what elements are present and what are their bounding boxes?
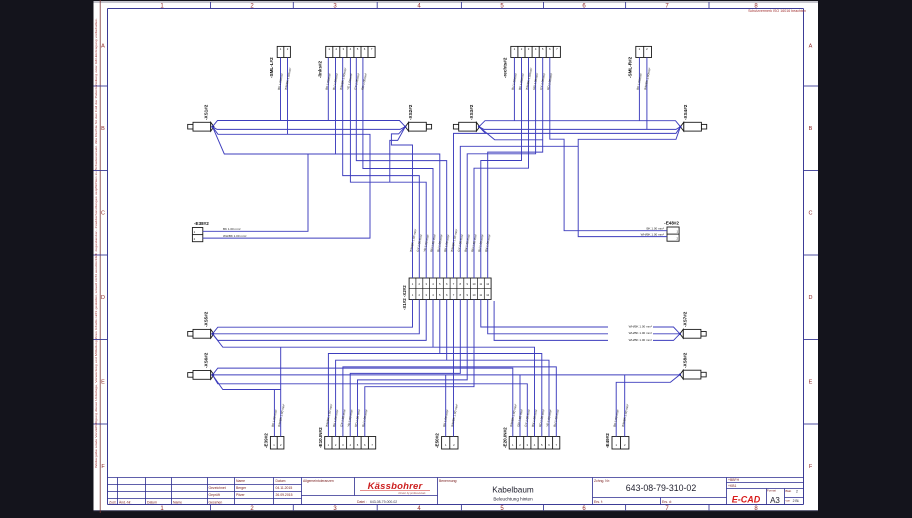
row letters right	[809, 44, 813, 471]
wire strip6 to links pin5	[356, 58, 446, 279]
svg-text:Weitergabe sowie Vervielfältig: Weitergabe sowie Vervielfältigung dieser…	[94, 18, 98, 468]
svg-text:-rechts#2: -rechts#2	[502, 57, 507, 78]
svg-text:E: E	[101, 380, 105, 386]
zone numbers top	[160, 3, 758, 9]
zchng nr area	[593, 497, 727, 499]
svg-text:-E20.IN#2: -E20.IN#2	[502, 427, 507, 448]
wire strip10 to rechts pin3	[474, 58, 529, 279]
wire strip11 to rechts pin2	[481, 58, 522, 279]
svg-text:E-CAD: E-CAD	[732, 495, 761, 505]
svg-text:Pitzer: Pitzer	[236, 493, 246, 497]
wire strip10 to E10 pin6	[365, 300, 474, 437]
svg-text:A: A	[809, 44, 813, 50]
wire XS1 fan4 to strip5 with E38 pin1 tap	[213, 127, 440, 278]
connector -links#2	[326, 46, 375, 57]
svg-text:E: E	[809, 380, 813, 386]
wire XS4 fan to E48 pin2	[578, 127, 680, 237]
svg-text:Ers. f:: Ers. f:	[594, 500, 603, 504]
svg-text:WH/BK 1.00 mm²: WH/BK 1.00 mm²	[629, 338, 652, 342]
wire XS6 fan1 to E20 pin1 with E50 pin1 tap	[213, 368, 513, 436]
wire XS6 fan4 to E39	[213, 375, 281, 390]
wire labels XS7 feeds	[608, 325, 653, 342]
wire XS8 to E49 pin1	[616, 375, 680, 437]
wire strip1 to XS2 tip	[391, 127, 412, 278]
wire SML-R pin1 drop	[638, 58, 640, 121]
row letters left	[101, 44, 105, 471]
wire SML-L pin2 drop	[287, 58, 289, 135]
drawing frame	[108, 9, 804, 505]
svg-text:C: C	[809, 211, 813, 217]
svg-text:Driven by professionals: Driven by professionals	[399, 491, 427, 495]
top ruler line	[94, 1, 819, 3]
terminal strip -X1#2 -X2#2	[409, 278, 491, 300]
svg-text:-E50#2: -E50#2	[435, 433, 440, 448]
wire E20 pin2 tap	[519, 375, 521, 437]
wire XS6 fan2 cross to XS8 tip	[213, 374, 680, 376]
wire labels SML-R pins	[636, 67, 652, 90]
wire labels E20.IN	[509, 404, 560, 428]
left revision table	[117, 478, 119, 505]
svg-text:-XS3#2: -XS3#2	[469, 104, 474, 120]
wire rechts pin6 to E48 pin1	[550, 58, 667, 231]
svg-text:-XS2#2: -XS2#2	[408, 104, 413, 120]
svg-text:Format: Format	[767, 489, 776, 493]
svg-text:Zust.: Zust.	[109, 500, 117, 504]
signature table	[234, 478, 236, 505]
wire labels links pins	[325, 67, 368, 90]
svg-text:A3: A3	[770, 496, 780, 505]
wire E10 pin3 to E20 pin7	[343, 367, 556, 437]
svg-text:BK 1.00 mm²: BK 1.00 mm²	[646, 227, 664, 231]
svg-text:Änd.-Nr.: Änd.-Nr.	[119, 500, 132, 504]
wire E10 pin1 to E20 pin5	[328, 354, 541, 437]
svg-text:WH/BK 1.00 mm²: WH/BK 1.00 mm²	[629, 331, 652, 335]
wire rechts pin5 to XS3 tip	[479, 58, 543, 140]
wire XS5 fan1 to strip1	[213, 300, 413, 334]
connector -rechts#2	[511, 46, 561, 57]
svg-text:D: D	[101, 295, 105, 301]
zone numbers bottom	[160, 506, 758, 512]
wire XS5 fan4 to E20 pin4	[213, 334, 535, 437]
svg-text:Name: Name	[236, 479, 245, 483]
svg-text:2 Bl.: 2 Bl.	[793, 499, 800, 503]
svg-text:Gezeichnet: Gezeichnet	[209, 486, 226, 490]
wire links pin2 drop to y154	[335, 58, 337, 155]
svg-text:04.11.2015: 04.11.2015	[276, 486, 293, 490]
svg-text:12: 12	[486, 282, 489, 286]
wire bus T1R XS3-XS4	[479, 121, 680, 127]
svg-text:-XS1#2: -XS1#2	[204, 104, 209, 120]
lamp -E10.IN#2	[325, 437, 376, 450]
svg-text:-E39#2: -E39#2	[264, 433, 269, 448]
svg-text:WH/BK 1.00 mm²: WH/BK 1.00 mm²	[629, 324, 652, 328]
svg-text:Gesehen: Gesehen	[209, 500, 223, 504]
bottom ruler line	[94, 510, 819, 512]
wire labels E10.IN	[325, 404, 369, 428]
wire strip5 drop	[439, 300, 441, 354]
wire bus T1 XS1-XS2	[213, 121, 406, 127]
svg-text:-E48#2: -E48#2	[664, 221, 679, 226]
svg-text:+BBFH: +BBFH	[728, 478, 740, 482]
svg-text:Geprüft: Geprüft	[209, 493, 220, 497]
wire labels E50	[442, 404, 459, 428]
svg-text:Benennung:: Benennung:	[439, 479, 457, 483]
zone ticks bottom	[211, 505, 710, 511]
svg-text:C: C	[101, 211, 105, 217]
title block small labels	[109, 478, 791, 504]
svg-text:-SML-L#2: -SML-L#2	[269, 57, 274, 78]
wire strip7 drop to E50 pin2	[453, 300, 455, 437]
svg-text:A: A	[101, 44, 105, 50]
svg-text:B: B	[101, 126, 105, 132]
wire junction dots	[211, 126, 681, 376]
connector -XS5#2 (plug pointing right)	[188, 329, 214, 338]
svg-text:Name: Name	[173, 500, 182, 504]
wire strip4 to links pin6	[363, 58, 433, 279]
svg-text:12: 12	[486, 293, 489, 297]
wire riser13 to XS7	[494, 301, 680, 340]
connector -XS1#2 (plug pointing right)	[188, 122, 214, 131]
wire strip3 to links pin4	[350, 58, 426, 279]
svg-text:-XS4#2: -XS4#2	[683, 104, 688, 120]
svg-text:WH/BK 1.00 mm²: WH/BK 1.00 mm²	[223, 234, 246, 238]
svg-text:+KB1: +KB1	[728, 484, 737, 488]
wire E38 pin1 tap	[203, 154, 308, 231]
svg-text:BK 1.00 mm²: BK 1.00 mm²	[223, 227, 241, 231]
svg-text:Blatt: Blatt	[786, 489, 792, 493]
svg-text:WH/BK 1.00 mm²: WH/BK 1.00 mm²	[641, 233, 664, 237]
wire strip9 to rechts pin4	[467, 58, 535, 279]
wire labels rechts pins	[511, 67, 554, 90]
wire XS5 fan3 to strip3	[213, 300, 427, 341]
lamp -E38#2	[192, 228, 202, 242]
svg-text:Beleuchtung hinten: Beleuchtung hinten	[493, 497, 533, 502]
wire XS2 fan2	[390, 127, 406, 183]
title block outer	[108, 477, 804, 479]
lamp -E49#2	[612, 437, 629, 450]
svg-text:Berger: Berger	[236, 486, 247, 490]
row ticks left/right	[94, 86, 819, 424]
svg-text:B: B	[809, 126, 813, 132]
wire E39 pin2 riser	[280, 347, 282, 436]
connector -SML-L#2	[277, 46, 290, 57]
svg-text:-E49#2: -E49#2	[605, 433, 610, 448]
zone ticks top	[211, 2, 710, 9]
svg-text:Zchng. Nr:: Zchng. Nr:	[594, 479, 610, 483]
wire E39 pin1 riser	[273, 390, 275, 437]
wire labels SML-L pins	[277, 67, 293, 90]
connector -XS6#2 (plug pointing right)	[188, 371, 214, 380]
wire rechts pin1 drop	[513, 58, 515, 121]
svg-text:-XS8#2: -XS8#2	[683, 352, 688, 368]
svg-text:-XS6#2: -XS6#2	[204, 352, 209, 368]
svg-text:Datei :: Datei :	[357, 500, 367, 504]
wire bus T2 XS1-XS2	[213, 127, 406, 130]
lamp -E50#2	[442, 437, 458, 450]
svg-text:Ers. d:: Ers. d:	[662, 500, 672, 504]
wire E49 pin2 tap	[624, 375, 626, 437]
wire XS6 fan3 to E20 pin3	[213, 375, 528, 437]
wire XS5 fan2 to strip2	[213, 300, 420, 334]
wire SML-R pin2 drop	[646, 58, 648, 130]
wire strip8 to E48 pin2 column	[460, 146, 578, 278]
lamp -E20.IN#2	[509, 437, 560, 450]
wire XS3 tip tap on bus	[479, 127, 486, 134]
svg-text:Schutzvermerk ISO 16016 beacht: Schutzvermerk ISO 16016 beachten	[748, 9, 806, 13]
wire strip2 to links pin3	[343, 58, 420, 279]
svg-text:-XS5#2: -XS5#2	[204, 311, 209, 327]
svg-text:643-08-79-310-02: 643-08-79-310-02	[626, 483, 697, 493]
wire labels strip top	[409, 229, 492, 253]
svg-text:-links#2: -links#2	[317, 60, 322, 78]
wire E10 pin2 to E20 pin6	[336, 360, 549, 436]
wire SML-L pin1 drop	[280, 58, 282, 121]
wire links pin1 drop	[327, 58, 329, 121]
svg-text:26.09.2015: 26.09.2015	[276, 493, 293, 497]
wire strip8 to E10 pin4	[350, 300, 460, 437]
wire strip9 to E10 pin5	[358, 300, 468, 437]
svg-text:2: 2	[796, 490, 798, 494]
wire labels E48	[641, 227, 664, 237]
connector -XS3#2 (plug pointing right)	[453, 122, 479, 131]
wire strip7 bus to XS4 with XS3 tap	[454, 127, 681, 278]
wire strip6 drop	[446, 300, 448, 361]
svg-text:10: 10	[473, 282, 476, 286]
wire labels E49	[612, 404, 629, 428]
svg-text:Datum: Datum	[276, 479, 286, 483]
svg-text:Allgemeintoleranzen: Allgemeintoleranzen	[303, 479, 334, 483]
svg-text:-XS7#2: -XS7#2	[683, 311, 688, 327]
svg-text:-X1#2 -X2#2: -X1#2 -X2#2	[402, 285, 407, 310]
connector -XS7#2 (plug pointing left)	[680, 329, 706, 338]
svg-text:-E38#2: -E38#2	[194, 221, 209, 226]
wire strip12 to XS7	[488, 300, 680, 334]
wire strip11 to XS7	[481, 300, 680, 334]
connector -XS2#2 (plug pointing left)	[405, 122, 431, 131]
svg-text:11: 11	[479, 282, 482, 286]
right area	[727, 482, 804, 484]
svg-text:-SML-R#2: -SML-R#2	[627, 56, 632, 78]
svg-text:11: 11	[479, 293, 482, 297]
svg-text:D: D	[809, 295, 813, 301]
svg-text:-E10.IN#2: -E10.IN#2	[318, 427, 323, 448]
svg-text:Kabelbaum: Kabelbaum	[492, 486, 534, 495]
connector -SML-R#2	[636, 46, 652, 57]
wire strip4 drop	[432, 300, 434, 348]
wire labels E39	[271, 404, 286, 428]
wire bus T3 XS1 to E38 pin2	[203, 127, 370, 238]
svg-text:Datum: Datum	[147, 500, 157, 504]
wire bus T2R XS3-XS4	[479, 127, 680, 130]
fold line left margin	[99, 0, 101, 513]
wire E50 pin1 tap	[445, 375, 447, 437]
main verticals	[207, 478, 209, 505]
svg-text:10: 10	[473, 293, 476, 297]
lamp -E39#2	[270, 437, 284, 450]
connector -XS8#2 (plug pointing left)	[680, 370, 706, 379]
wire labels E38	[223, 227, 246, 238]
wire strip12 to pin5 column	[488, 140, 543, 278]
lamp -E48#2	[667, 227, 679, 241]
svg-text:643-08-79-000-02: 643-08-79-000-02	[370, 500, 397, 504]
svg-text:von: von	[786, 499, 791, 503]
connector -XS4#2 (plug pointing left)	[680, 122, 706, 131]
